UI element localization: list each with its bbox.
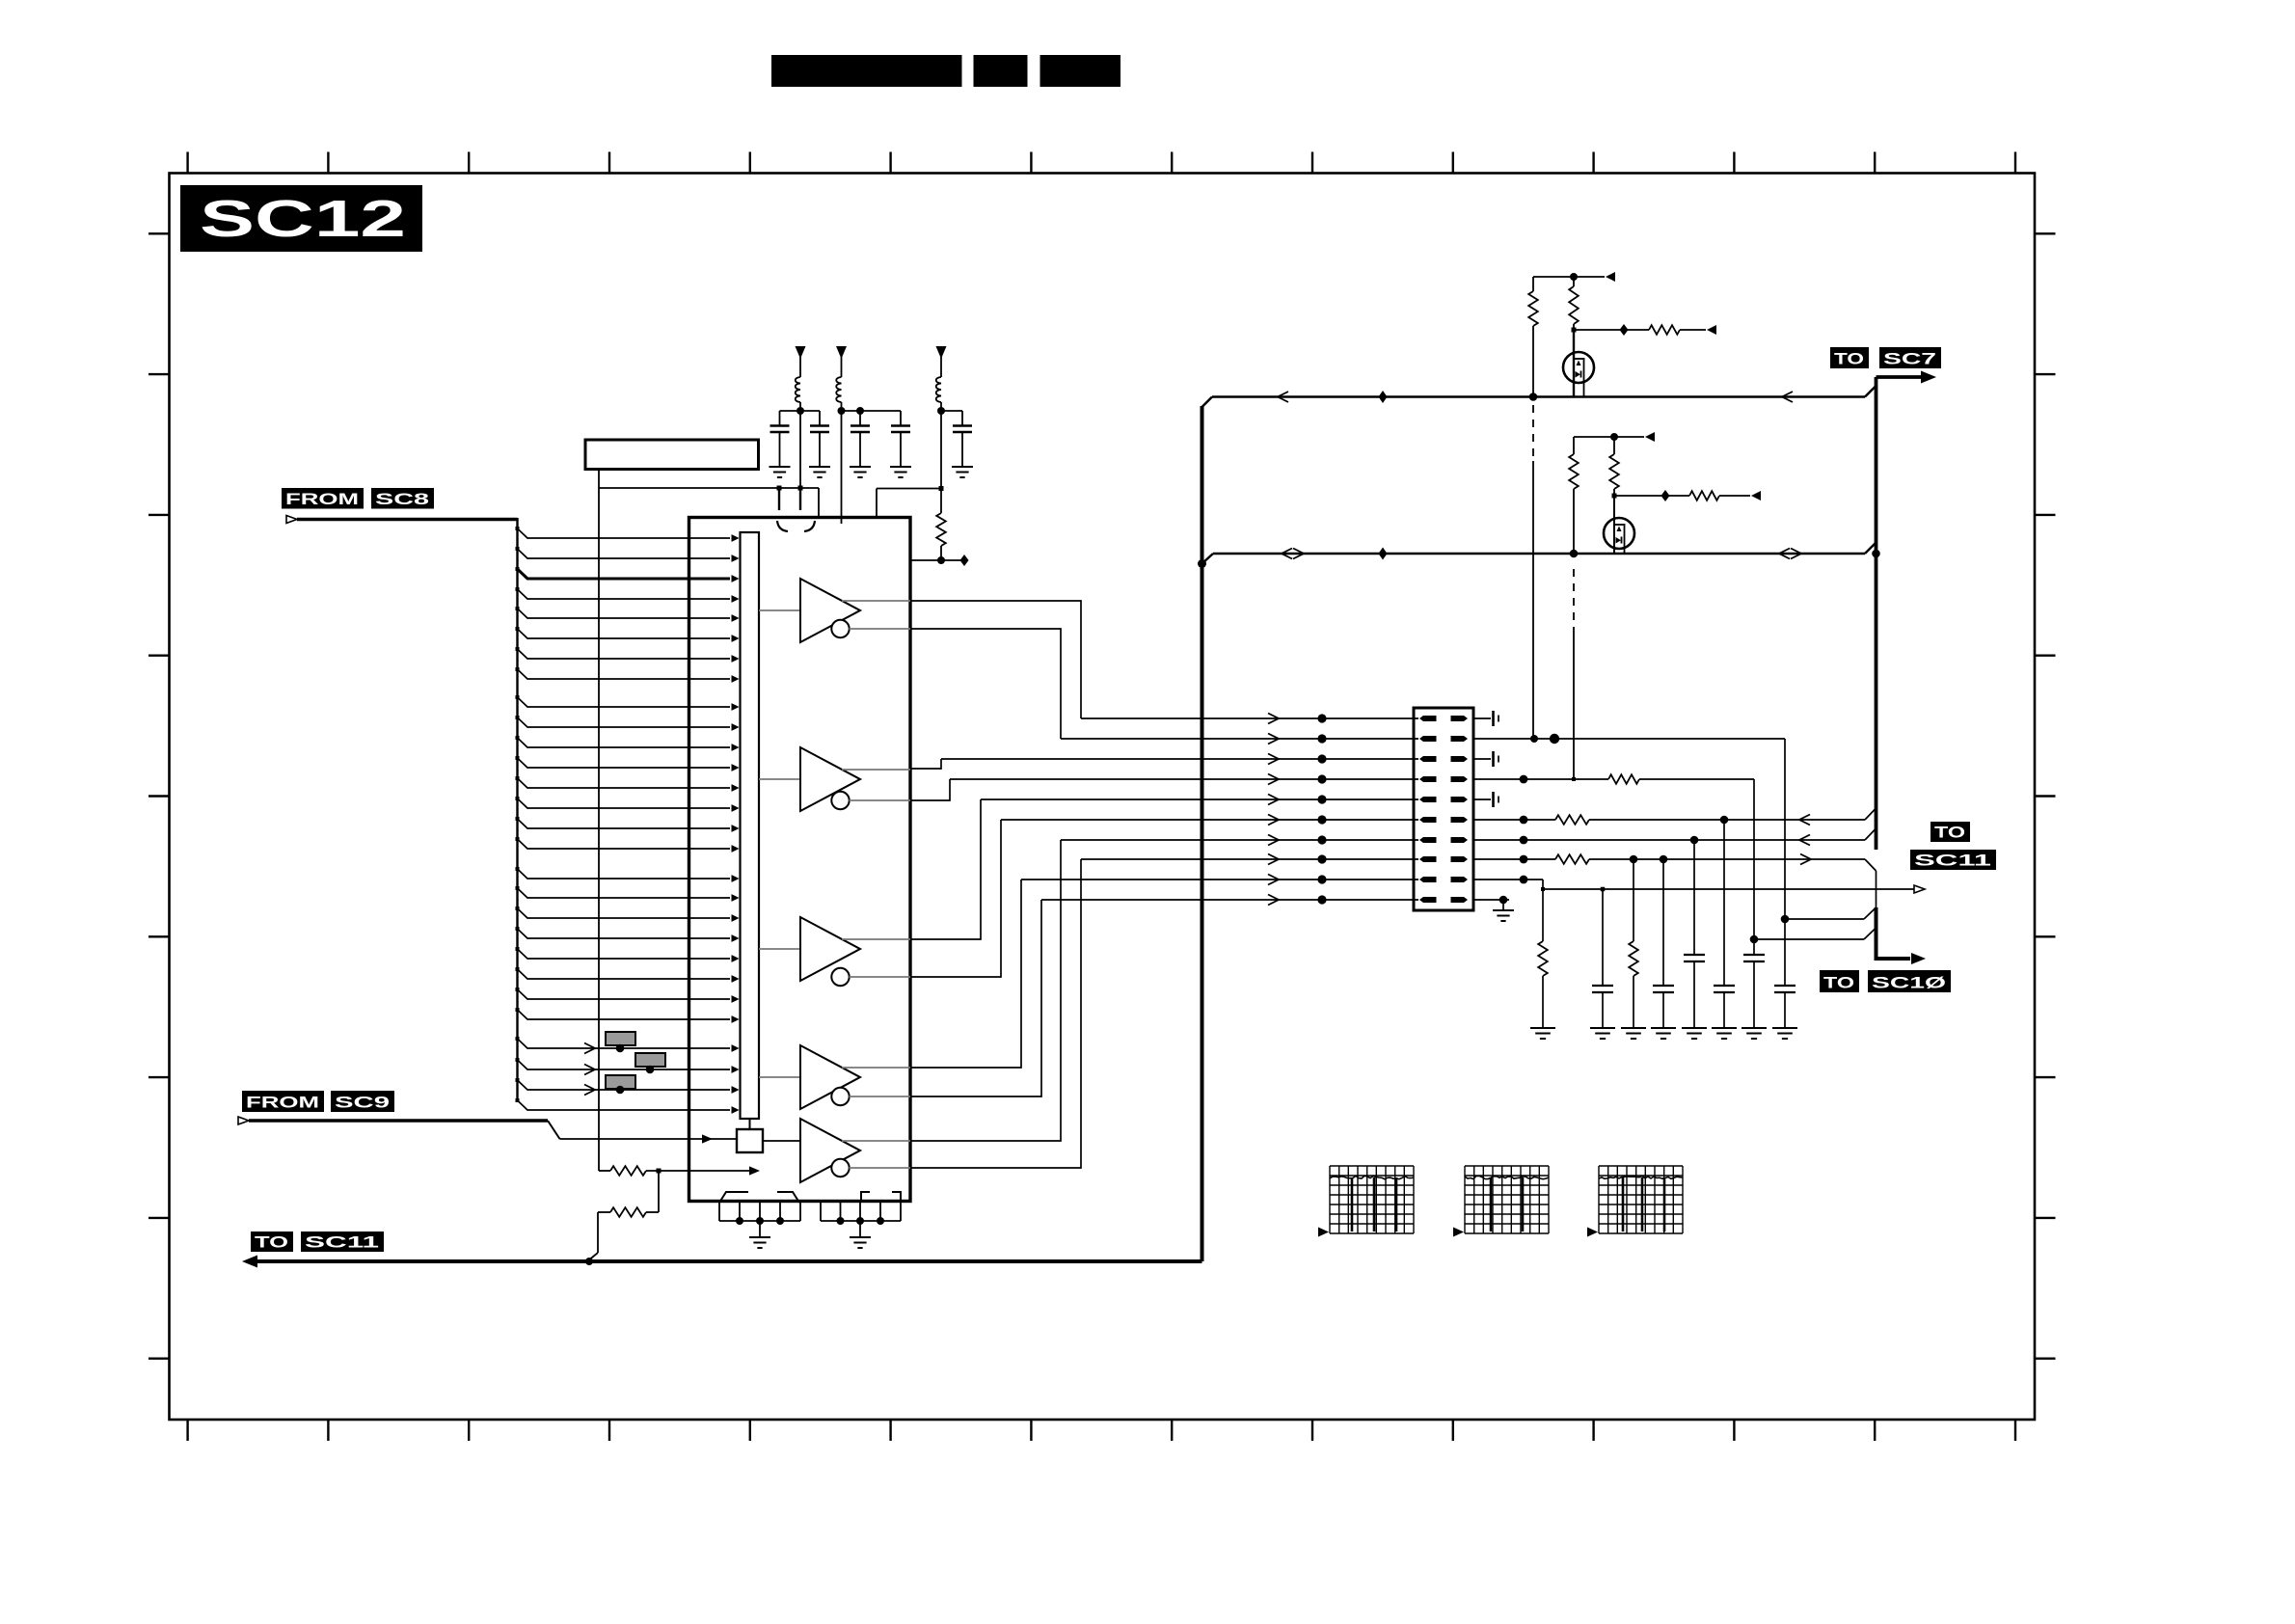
connector right pin 7 [1451, 837, 1469, 843]
wire y1214 with resistor [599, 1170, 610, 1172]
TO SC10 exit bus [1876, 871, 1877, 907]
buffer gate 2 bubble [831, 792, 849, 809]
connector right pin 2 [1451, 736, 1469, 742]
label TO SC10 [1820, 970, 1859, 992]
inductor L2 [836, 377, 841, 402]
gate5 bubble route to row8 [910, 859, 1081, 1168]
vertical wire x1600 with resistor [1542, 889, 1544, 941]
wire to SC10 line2 [1754, 938, 1864, 940]
input arrowhead 27 [732, 1086, 740, 1094]
Q2 top rail wire [1574, 436, 1644, 438]
ground under C-top2 [809, 466, 830, 468]
input wire 13 [518, 778, 731, 788]
mid arrow on input wire [584, 1065, 595, 1075]
ground under C-top5 [952, 466, 973, 468]
resistor R-row4 [1608, 774, 1639, 784]
connector left pin 1 [1419, 716, 1437, 721]
ground under row10 [1502, 900, 1504, 910]
svg-text:SC7: SC7 [1883, 351, 1936, 368]
capacitor C-top3 [859, 411, 861, 425]
buffer gate 4 input [759, 1076, 800, 1078]
bus2 diamond [1379, 548, 1388, 560]
input arrowhead 28 [732, 1106, 740, 1114]
IC bottom bracket left [719, 1192, 748, 1203]
input arrowhead 15 [732, 825, 740, 832]
connector J1 outline [1414, 708, 1473, 910]
row 8 wire to connector [1081, 858, 1418, 860]
bus2 junction dots [1570, 550, 1579, 558]
row 8 arrow [1268, 854, 1279, 865]
row 7 arrow [1268, 835, 1279, 846]
input arrowhead 14 [732, 804, 740, 812]
redacted title bar 3 [1040, 55, 1121, 87]
TO SC7 arrowhead [1921, 371, 1936, 384]
border tick marks [186, 152, 188, 174]
buffer gate 3 input [759, 948, 800, 950]
capacitor C-top1 [779, 411, 781, 425]
input wire 3 [518, 569, 731, 579]
capacitor C-top4 [900, 411, 902, 425]
TO SC11 arrowhead [242, 1256, 257, 1268]
row8 arrow right [1800, 854, 1811, 865]
row 5 arrow [1268, 795, 1279, 805]
input arrowhead 2 [732, 555, 740, 562]
input wire 23 [518, 989, 731, 999]
buffer gate 1 outputs [842, 600, 910, 602]
power net vertical x872 [841, 411, 843, 524]
row 10 wire to connector [1041, 899, 1418, 901]
row 2 wire to connector [1061, 738, 1418, 740]
input arrowhead 19 [732, 914, 740, 922]
row 6 wire to connector [1001, 819, 1418, 821]
connector right pin 9 [1451, 877, 1469, 882]
redacted IC name box [585, 440, 759, 470]
wire from IC to diamond [910, 559, 964, 561]
ground right comb [859, 1221, 861, 1237]
input arrowhead 12 [732, 764, 740, 771]
vertical wire x1694 with resistor [1633, 859, 1634, 941]
input arrowhead 9 [732, 703, 740, 711]
svg-text:SC9: SC9 [335, 1095, 390, 1112]
connector right pin 6 [1451, 817, 1469, 823]
connector left pin 4 [1419, 776, 1437, 782]
FROM SC8 entry arrow [286, 516, 297, 524]
capacitor C-1662 [1592, 985, 1613, 987]
row 6 arrow [1268, 815, 1279, 826]
resistor R-row6 [1555, 815, 1589, 825]
right ground comb [820, 1202, 822, 1222]
gate4 apex route to row9 [910, 880, 1021, 1068]
input wire 1 [518, 528, 731, 538]
connector right pin 5 [1451, 797, 1469, 802]
connector left pin 10 [1419, 897, 1437, 903]
bus2 double arrow a [1282, 549, 1292, 559]
wire to SC10 line1 [1785, 918, 1864, 920]
row 9 junction dot [1317, 875, 1326, 883]
redacted title bar 1 [771, 55, 962, 87]
svg-text:TO: TO [1823, 975, 1854, 992]
input arrowhead 3 [732, 575, 740, 582]
input arrowhead 5 [732, 614, 740, 622]
row6 diagonal to SC7 bus [1865, 808, 1876, 820]
connector left pin 6 [1419, 817, 1437, 823]
row 3 wire to connector [941, 758, 1418, 760]
FROM SC8 bus wire [297, 518, 518, 522]
ground 1757 [1682, 1027, 1707, 1029]
input arrowhead 8 [732, 675, 740, 683]
transistor Q2 [1604, 518, 1634, 549]
resistor R-683 [646, 1211, 659, 1213]
sheet border frame [170, 174, 2036, 1421]
ground 1694 [1621, 1027, 1646, 1029]
svg-text:SC12: SC12 [200, 190, 406, 248]
IC top notch bracket left [777, 521, 788, 531]
IC internal input bus bar [741, 532, 760, 1119]
input arrowhead 1 [732, 534, 740, 542]
row6 arrow left [1799, 815, 1810, 826]
row 3 junction dot [1317, 754, 1326, 763]
buffer gate 2 input [759, 778, 800, 780]
IC U1 outline [689, 518, 911, 1202]
decoupling rail 3 [941, 410, 962, 412]
row 7 wire to connector [1061, 839, 1418, 841]
gate1 bubble route to row2 [910, 629, 1061, 739]
FROM SC9 wire [249, 1119, 548, 1123]
input wire 19 [518, 908, 731, 918]
input arrowhead 24 [732, 1015, 740, 1023]
ground under C-top3 [850, 466, 871, 468]
row4 wire right with resistor [1473, 778, 1608, 780]
input wire 17 [518, 869, 731, 879]
redacted title bar 2 [974, 55, 1028, 87]
connector right pin 10 [1451, 897, 1469, 903]
row7 diagonal to SC7 bus [1865, 828, 1876, 840]
input arrowhead 26 [732, 1066, 740, 1073]
oscillogram grid [1465, 1166, 1549, 1233]
resistor R-1590 [1532, 277, 1534, 291]
TO SC11 exit wire [254, 1259, 1202, 1263]
junction dots on labeled input wires [616, 1044, 625, 1053]
row8 diagonal down [1865, 859, 1876, 871]
label TO SC11 right [1930, 822, 1970, 842]
row 1 arrow [1268, 714, 1279, 724]
input wire 12 [518, 758, 731, 768]
inductor L3 [936, 377, 941, 402]
input bus vertical [516, 518, 518, 1100]
buffer gate 3 outputs [842, 938, 910, 940]
row6 wire right with resistor [1473, 819, 1555, 821]
ground 1851 [1772, 1027, 1797, 1029]
TO SC7 exit wire [1876, 375, 1922, 379]
connector right pin 4 [1451, 776, 1469, 782]
input wire 15 [518, 819, 731, 828]
box to gate5 input wire [763, 1140, 800, 1142]
buffer gate 3 triangle [800, 917, 860, 981]
resistor R-1694 [1629, 941, 1638, 976]
input wire 5 [518, 609, 731, 618]
row7 wire right [1473, 839, 1865, 841]
oscillogram trace [1465, 1176, 1549, 1178]
ground 1725 [1651, 1027, 1676, 1029]
ground left comb [759, 1221, 761, 1237]
input wire 11 [518, 738, 731, 747]
buffer gate 4 triangle [800, 1045, 860, 1109]
sheet label SC12 [180, 185, 422, 252]
power net vertical x830 [799, 411, 801, 488]
Q2 rail arrow [1645, 432, 1655, 442]
long vertical net x621 [598, 469, 600, 1171]
bus1 arrow left b [1782, 392, 1793, 402]
power net vertical x976 [940, 411, 942, 513]
bus1 junction dot [1529, 392, 1538, 401]
main bus line 1 [1212, 395, 1865, 397]
svg-text:FROM: FROM [246, 1095, 319, 1112]
IC power stub rail right [877, 488, 941, 490]
Q1 gate wire with resistor [1574, 329, 1649, 331]
buffer gate 4 bubble [831, 1088, 849, 1105]
buffer gate 2 outputs [842, 769, 910, 771]
row2 wire right [1473, 738, 1785, 740]
input arrowhead 4 [732, 595, 740, 603]
oscillogram grid [1330, 1166, 1414, 1233]
ground under C-top1 [769, 466, 791, 468]
label TO SC7 [1830, 347, 1869, 368]
input wire 14 [518, 798, 731, 808]
row3 termination [1473, 758, 1491, 760]
gate4 bubble route to row10 [910, 900, 1041, 1096]
gate5 apex route to row7 [910, 840, 1061, 1141]
connector left pin 9 [1419, 877, 1437, 882]
Q2 gate wire with resistor [1614, 495, 1689, 497]
input arrowhead 20 [732, 934, 740, 942]
svg-text:SC11: SC11 [1914, 853, 1991, 870]
input wire 8 [518, 669, 731, 679]
FROM SC9 mid arrowhead [702, 1134, 713, 1143]
buffer gate 1 triangle [800, 579, 860, 642]
buffer gate 5 bubble [831, 1159, 849, 1177]
capacitor C-1819 [1743, 954, 1765, 956]
connector right pin 1 [1451, 716, 1469, 721]
input arrowhead 22 [732, 975, 740, 983]
bus1 arrow left a [1278, 392, 1288, 402]
row 10 arrow [1268, 895, 1279, 906]
power arrow 3 [936, 346, 947, 359]
buffer gate 5 triangle [800, 1119, 860, 1182]
connector left pin 3 [1419, 756, 1437, 762]
svg-text:TO: TO [1934, 825, 1965, 842]
bus1 right diagonal to SC7 bus [1865, 386, 1876, 397]
transistor Q1 [1563, 352, 1594, 383]
input arrowhead 17 [732, 875, 740, 882]
bus1 left corner diagonal [1202, 397, 1213, 408]
input wire 4 [518, 589, 731, 599]
buffer gate 4 outputs [842, 1067, 910, 1069]
resistor R-1600 [1538, 941, 1548, 976]
vertical trunk bus to TO SC11 [1201, 406, 1204, 1261]
capacitor C-1851 [1774, 985, 1795, 987]
resistor R-row8 [1555, 854, 1589, 864]
row 9 wire to connector [1021, 879, 1418, 880]
ground 1788 [1712, 1027, 1737, 1029]
row 8 junction dot [1317, 854, 1326, 863]
IC top notch bracket right [804, 521, 815, 531]
redacted net label box 3 [606, 1075, 635, 1089]
row10 wire to ground [1473, 899, 1509, 901]
power arrow 1 [796, 346, 806, 359]
bus2 double arrow b [1779, 549, 1790, 559]
ground 1819 [1741, 1027, 1767, 1029]
vertical wire x1662 with capacitor [1602, 889, 1604, 986]
svg-text:SC8: SC8 [375, 491, 429, 508]
input arrowhead 23 [732, 995, 740, 1003]
gate1 apex route to row1 [910, 601, 1081, 718]
oscillogram grid [1599, 1166, 1683, 1233]
ground 1662 [1590, 1027, 1615, 1029]
row 1 junction dot [1317, 714, 1326, 722]
row 9 arrow [1268, 875, 1279, 885]
Q1 top rail wire [1533, 276, 1605, 278]
svg-text:SC1Ø: SC1Ø [1872, 975, 1946, 992]
IC bottom bracket right [861, 1192, 870, 1201]
buffer gate 1 bubble [831, 620, 849, 637]
FROM SC9 entry arrow [238, 1117, 249, 1124]
decoupling rail 1 [780, 410, 821, 412]
IC power stub rail left [599, 487, 819, 489]
row 2 arrow [1268, 734, 1279, 744]
arrowhead into IC y1214 [749, 1166, 760, 1175]
vertical x683 [658, 1171, 660, 1212]
row 5 wire to connector [981, 798, 1418, 800]
gate2 apex route to row3 [910, 759, 941, 769]
svg-text:SC11: SC11 [305, 1234, 379, 1252]
capacitor C-top5 [961, 411, 963, 425]
inductor L1 [796, 377, 800, 402]
power arrow 2 [836, 346, 847, 359]
input arrowhead 6 [732, 635, 740, 642]
redacted net label box 1 [606, 1032, 635, 1045]
mid arrow on input wire [584, 1085, 595, 1096]
input arrowhead 7 [732, 655, 740, 663]
connector right pin 3 [1451, 756, 1469, 762]
connector left pin 2 [1419, 736, 1437, 742]
vertical wire x1819 with capacitor [1753, 779, 1755, 955]
input wire 6 [518, 629, 731, 638]
oscillogram arrow [1453, 1228, 1464, 1237]
row 4 wire to connector [950, 778, 1418, 780]
resistor R-1632b [1573, 437, 1575, 454]
svg-text:TO: TO [1834, 351, 1864, 368]
redacted net label box 2 [635, 1053, 665, 1067]
input wire 21 [518, 949, 731, 959]
buffer gate 5 outputs [842, 1140, 910, 1142]
svg-text:TO: TO [255, 1234, 288, 1252]
row 3 arrow [1268, 754, 1279, 765]
buffer gate 2 triangle [800, 747, 860, 811]
capacitor C-1788 [1714, 985, 1735, 987]
resistor R-976 [936, 513, 946, 546]
input arrowhead 25 [732, 1044, 740, 1052]
connector left pin 8 [1419, 856, 1437, 862]
oscillogram trace [1330, 1176, 1414, 1178]
gate2 bubble route to row4 [910, 779, 950, 800]
bus2 right diagonal to SC7 bus [1865, 543, 1876, 555]
input arrowhead 18 [732, 894, 740, 902]
input wire 22 [518, 969, 731, 979]
row 4 arrow [1268, 774, 1279, 785]
input wire 25 [518, 1039, 731, 1048]
IC OE square box [737, 1129, 763, 1152]
mid arrow on input wire [584, 1043, 595, 1054]
oscillogram trace [1599, 1177, 1683, 1179]
TO SC7 vertical bus [1875, 377, 1878, 850]
svg-text:FROM: FROM [285, 491, 359, 508]
row7 arrow left [1799, 835, 1810, 846]
label FROM SC9 [242, 1091, 324, 1112]
capacitor C-1757 [1684, 954, 1705, 956]
buffer gate 3 bubble [831, 968, 849, 986]
input wire 2 [518, 549, 731, 558]
input wire 26 [518, 1060, 731, 1069]
input arrowhead 13 [732, 784, 740, 792]
vertical wire x1757 with capacitor [1693, 840, 1695, 955]
ground under C-top4 [890, 466, 911, 468]
dashed net below bus2 [1573, 569, 1575, 632]
wire to TO SC11 branch [598, 1211, 610, 1213]
input wire 9 [518, 697, 731, 707]
main bus line 2 [1213, 553, 1865, 555]
Q1 rail arrow [1606, 272, 1615, 282]
input arrowhead 11 [732, 744, 740, 751]
row1 termination [1473, 717, 1491, 719]
connector left pin 5 [1419, 797, 1437, 802]
resistor R-1632 [1573, 277, 1575, 286]
row 1 wire to connector [1081, 717, 1418, 719]
bus1 diamond [1379, 391, 1388, 403]
TO SC10 arrowhead [1911, 953, 1926, 964]
bar to box stub [749, 1119, 751, 1129]
row 2 junction dot [1317, 734, 1326, 743]
row 5 junction dot [1317, 795, 1326, 803]
gate3 apex route to row5 [910, 799, 981, 939]
gate3 bubble route to row6 [910, 820, 1001, 977]
capacitor C-top2 [819, 411, 821, 425]
input wire 10 [518, 717, 731, 727]
input wire 7 [518, 649, 731, 659]
row5 termination [1473, 798, 1491, 800]
vertical wire x1788 with capacitor [1723, 820, 1725, 986]
left ground comb [718, 1202, 720, 1222]
dashed net below bus1 [1532, 405, 1534, 461]
row 6 junction dot [1317, 815, 1326, 824]
connector left pin 7 [1419, 837, 1437, 843]
input wire 24 [518, 1010, 731, 1019]
capacitor C-1725 [1653, 985, 1674, 987]
row 10 junction dot [1317, 895, 1326, 904]
oscillogram arrow [1587, 1228, 1598, 1237]
label TO SC11 bottom [251, 1232, 293, 1252]
connector right pin 8 [1451, 856, 1469, 862]
buffer gate 1 input [759, 609, 800, 611]
input wire 18 [518, 888, 731, 898]
vertical wire x1725 with capacitor [1662, 859, 1664, 986]
input wire 20 [518, 929, 731, 938]
label FROM SC8 [282, 488, 364, 509]
ground 1600 [1530, 1027, 1555, 1029]
resistor R-621 [610, 1166, 646, 1176]
row8 wire right with resistor [1473, 858, 1555, 860]
input wire 28 [518, 1100, 731, 1110]
row 4 junction dot [1317, 774, 1326, 783]
